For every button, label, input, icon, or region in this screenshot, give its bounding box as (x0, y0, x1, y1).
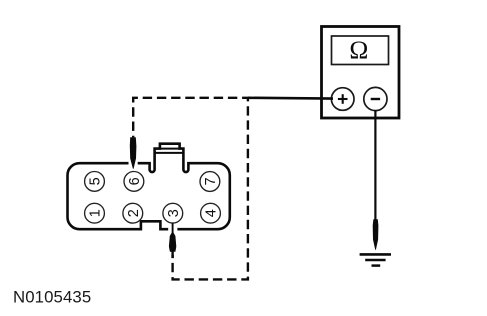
pin 5 (85, 172, 105, 192)
svg-text:Ω: Ω (349, 35, 368, 64)
svg-text:N0105435: N0105435 (13, 288, 91, 307)
pin 6 (124, 172, 144, 192)
pin 7 (200, 172, 220, 192)
ohmmeter display window (332, 36, 389, 65)
probe tip at pin 3 (168, 223, 177, 258)
pin 1 (85, 203, 105, 223)
connector latch tab top ledge (155, 149, 184, 153)
svg-text:6: 6 (127, 177, 143, 185)
probe tip at pin 6 (129, 137, 138, 169)
svg-text:7: 7 (203, 177, 219, 185)
pin 3 (163, 203, 183, 223)
svg-text:2: 2 (126, 209, 142, 217)
negative terminal of U1 (364, 87, 387, 110)
connector C1 shell outline (68, 144, 230, 230)
pin 2 (123, 203, 143, 223)
ground probe tip (373, 219, 379, 250)
pin 4 (201, 203, 221, 223)
wire: negative terminal to ground probe (374, 110, 376, 221)
ground symbol (360, 254, 391, 265)
ohmmeter U1 body (322, 27, 400, 119)
wire: dashed test-lead path (pin 6 lead, top run, right run, bottom run, pin 3 lead) (133, 98, 248, 280)
svg-text:3: 3 (166, 209, 182, 217)
positive terminal of U1 (331, 88, 354, 111)
svg-text:4: 4 (204, 209, 220, 217)
svg-text:1: 1 (88, 209, 104, 217)
wire: solid lead from dashed corner to positive terminal (248, 97, 333, 100)
svg-text:5: 5 (88, 177, 104, 185)
